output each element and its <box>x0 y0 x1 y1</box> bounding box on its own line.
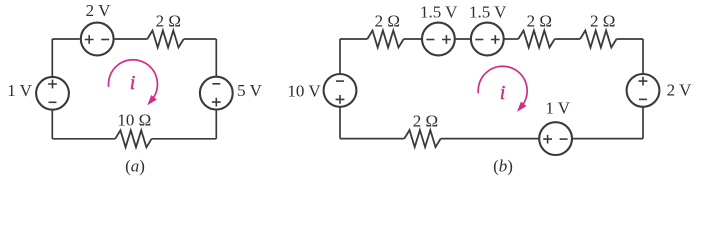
svg-text:i: i <box>130 72 136 94</box>
wire b bottom-right <box>572 138 643 140</box>
wire a top-right <box>184 38 217 40</box>
svg-text:1.5 V: 1.5 V <box>420 3 458 22</box>
wire a right-upper <box>215 39 217 76</box>
wire b top-5 <box>555 38 580 40</box>
wire a left-upper <box>51 39 53 76</box>
wire a top-mid <box>115 38 148 40</box>
wire b bottom-mid <box>441 138 540 140</box>
source V1 2V (a) <box>81 23 114 56</box>
wire a right-lower <box>215 110 217 139</box>
wire b left-upper <box>339 39 341 74</box>
wire b top-6 <box>617 38 644 40</box>
svg-text:2 Ω: 2 Ω <box>590 12 615 31</box>
wire b top-1 <box>340 38 367 40</box>
svg-text:5 V: 5 V <box>237 81 262 100</box>
svg-text:i: i <box>500 82 506 104</box>
svg-text:2 Ω: 2 Ω <box>156 12 181 31</box>
svg-text:1 V: 1 V <box>7 81 32 100</box>
source V6 10V (b) <box>324 74 357 107</box>
wire b top-2 <box>404 38 422 40</box>
wire a top-left <box>52 38 80 40</box>
wire a bottom-left <box>52 138 115 140</box>
resistor R2 10ohm (a) <box>115 130 151 147</box>
source V7 2V (b) <box>627 74 660 107</box>
current arrow i (b) <box>478 66 527 112</box>
svg-text:1.5 V: 1.5 V <box>469 3 507 22</box>
svg-text:2 Ω: 2 Ω <box>413 111 438 130</box>
svg-text:10 V: 10 V <box>287 82 321 101</box>
current arrow i (a) <box>108 60 157 106</box>
wire a left-lower <box>51 110 53 139</box>
resistor R3 2ohm (b top) <box>367 31 403 48</box>
svg-text:2 V: 2 V <box>86 1 111 20</box>
wire b left-lower <box>339 107 341 138</box>
svg-text:2 V: 2 V <box>667 81 692 100</box>
wire b top-3 <box>455 38 471 40</box>
svg-text:(a): (a) <box>125 157 145 176</box>
source V8 1V (b) <box>539 122 572 155</box>
svg-text:2 Ω: 2 Ω <box>375 12 400 31</box>
resistor R4 2ohm (b top) <box>518 31 554 48</box>
svg-text:10 Ω: 10 Ω <box>117 111 151 130</box>
resistor R5 2ohm (b top) <box>580 31 616 48</box>
svg-text:(b): (b) <box>493 157 513 176</box>
source V2 1V (a) <box>36 77 69 110</box>
wire b right-lower <box>642 107 644 138</box>
svg-text:1 V: 1 V <box>545 99 570 118</box>
wire b right-upper <box>642 39 644 74</box>
source V3 5V (a) <box>200 77 233 110</box>
source V5 1.5V (b) <box>471 23 504 56</box>
source V4 1.5V (b) <box>422 23 455 56</box>
wire b top-4 <box>504 38 519 40</box>
svg-text:2 Ω: 2 Ω <box>527 12 552 31</box>
wire b bottom-left <box>340 138 404 140</box>
resistor R6 2ohm (b bottom) <box>404 130 440 147</box>
wire a bottom-right <box>152 138 217 140</box>
resistor R1 2ohm (a) <box>147 31 183 48</box>
